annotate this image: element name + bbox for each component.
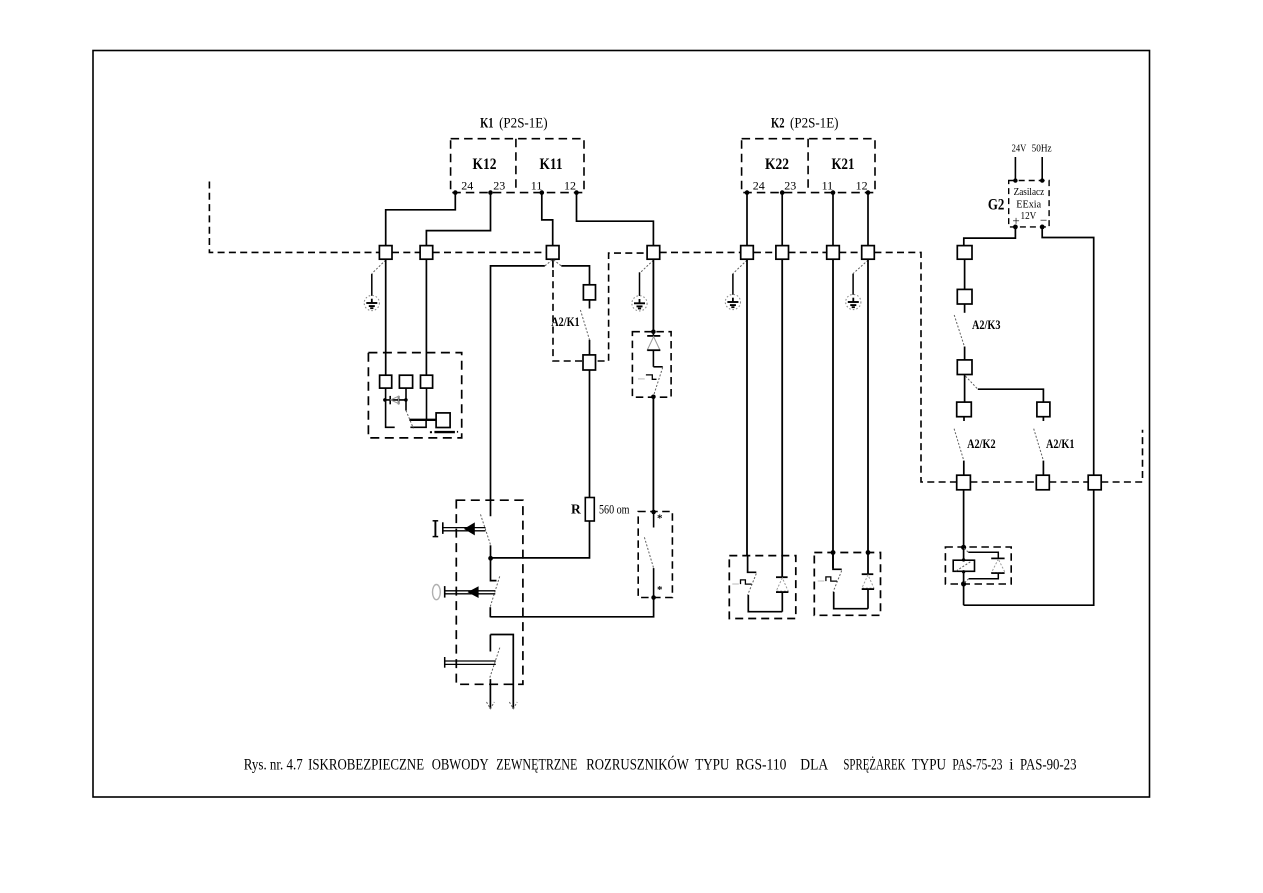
svg-text:12: 12 — [856, 178, 868, 192]
svg-text:A2/K1: A2/K1 — [1046, 436, 1075, 451]
svg-text:ZEWNĘTRZNE: ZEWNĘTRZNE — [496, 756, 577, 773]
svg-text:G2: G2 — [988, 197, 1005, 214]
svg-text:ROZRUSZNIKÓW: ROZRUSZNIKÓW — [586, 756, 689, 773]
svg-text:(P2S-1E): (P2S-1E) — [790, 116, 839, 132]
svg-text:PAS-75-23: PAS-75-23 — [952, 756, 1002, 773]
svg-text:12V: 12V — [1021, 210, 1037, 222]
svg-text:A2/K3: A2/K3 — [972, 317, 1001, 332]
svg-text:23: 23 — [493, 178, 505, 192]
svg-text:TYPU: TYPU — [912, 756, 946, 773]
svg-text:PAS-90-23: PAS-90-23 — [1020, 756, 1077, 773]
svg-text:RGS-110: RGS-110 — [736, 756, 787, 773]
svg-text:50Hz: 50Hz — [1032, 144, 1052, 155]
svg-text:24: 24 — [753, 178, 765, 192]
svg-text:*: * — [657, 513, 663, 525]
svg-text:EExia: EExia — [1016, 199, 1041, 211]
svg-text:DLA: DLA — [800, 756, 828, 773]
svg-text:i: i — [1009, 756, 1014, 773]
svg-text:23: 23 — [784, 178, 796, 192]
svg-text:Rys. nr. 4.7: Rys. nr. 4.7 — [244, 756, 303, 773]
svg-text:K11: K11 — [540, 156, 563, 173]
svg-text:K2: K2 — [771, 116, 785, 132]
svg-text:24V: 24V — [1012, 144, 1027, 155]
svg-text:560 om: 560 om — [599, 502, 630, 517]
svg-text:R: R — [571, 502, 581, 517]
svg-text:12: 12 — [564, 178, 576, 192]
svg-text:K12: K12 — [473, 156, 497, 173]
svg-text:A2/K2: A2/K2 — [967, 436, 996, 451]
svg-text:TYPU: TYPU — [695, 756, 729, 773]
svg-text:11: 11 — [531, 178, 543, 192]
svg-text:K1: K1 — [480, 116, 494, 132]
svg-text:24: 24 — [461, 178, 473, 192]
svg-text:A2/K1: A2/K1 — [551, 314, 580, 329]
svg-text:OBWODY: OBWODY — [432, 756, 489, 773]
svg-text:ISKROBEZPIECZNE: ISKROBEZPIECZNE — [308, 756, 424, 773]
svg-text:K21: K21 — [832, 156, 855, 173]
svg-text:SPRĘŻAREK: SPRĘŻAREK — [843, 756, 905, 773]
svg-text:(P2S-1E): (P2S-1E) — [499, 116, 547, 132]
svg-text:K22: K22 — [765, 156, 789, 173]
svg-text:*: * — [657, 584, 663, 596]
svg-text:11: 11 — [822, 178, 834, 192]
svg-text:Zasilacz: Zasilacz — [1014, 186, 1045, 198]
